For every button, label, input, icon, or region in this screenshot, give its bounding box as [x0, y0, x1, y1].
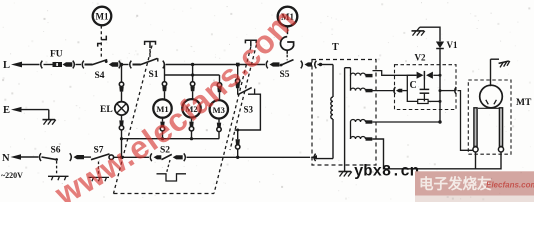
node: S3 tap — [236, 63, 240, 67]
wire — [84, 156, 91, 158]
svg-text:T: T — [332, 42, 339, 53]
wire: dashed link S2 cam — [167, 160, 170, 172]
switch S3 branch from rail — [236, 65, 240, 95]
connector ) — [184, 153, 186, 161]
svg-text:EL: EL — [100, 105, 113, 115]
lamp branch: plug connector top — [119, 66, 123, 102]
motor M1 (turntable, top) — [278, 7, 298, 27]
wire: bottom bus of motors — [120, 137, 219, 140]
wire: dashed diagonal linkage D4 — [230, 45, 257, 151]
magnetron body — [478, 85, 502, 108]
wire: dashed link to S5 — [286, 50, 288, 60]
node E (earth terminal) — [3, 105, 49, 119]
resistor in doubler — [418, 99, 440, 103]
transformer core line with ground — [345, 68, 351, 172]
wire: HV line b down and along bottom to magnetron — [372, 139, 501, 169]
connector ( before S2 — [150, 153, 152, 161]
connector ) after S6 — [70, 153, 72, 161]
voltage doubler dashed box — [395, 65, 457, 110]
svg-text:V1: V1 — [447, 40, 458, 50]
wire: dashed link S7 cam — [98, 162, 100, 176]
connector ( — [82, 61, 84, 69]
wire: dashed diagonal linkage D3 — [214, 47, 251, 194]
transformer primary winding — [317, 65, 334, 159]
wire: plug dash after S2 — [173, 155, 183, 159]
svg-text:Elecfans.com: Elecfans.com — [486, 181, 534, 190]
wire: HV line a to diode column — [372, 121, 440, 123]
wire into transformer + node — [318, 63, 334, 66]
magnetron filament leads — [473, 108, 504, 152]
connector ( — [41, 61, 43, 69]
svg-text:S3: S3 — [244, 105, 254, 115]
wire: plug dash — [154, 155, 162, 159]
node junctions on column — [438, 74, 441, 124]
wire: dashed link cam to S1 — [149, 49, 151, 59]
wire: L rail middle segment — [166, 64, 266, 66]
ground (magnetron anode) — [491, 59, 510, 86]
node: junction of L rail and lamp branch — [120, 63, 123, 66]
connector ring after S7 — [109, 155, 114, 160]
wire: plug dash — [270, 62, 280, 66]
wire: doubler loop left side — [407, 75, 417, 101]
switch S7 blade — [91, 146, 110, 160]
wire: top ground to V1 — [420, 27, 440, 41]
svg-text:MT: MT — [516, 98, 532, 108]
wire: filament line a to doubler — [373, 71, 417, 76]
wire: plug dash — [74, 155, 85, 159]
wire: plug dash — [305, 62, 313, 66]
banner elecfans — [415, 171, 534, 202]
wire — [85, 64, 93, 66]
connector ) — [301, 61, 303, 69]
connector arrow into transformer — [310, 154, 317, 161]
coupling symbol (clutch) — [280, 37, 293, 51]
wire: V1 column through doubler — [439, 49, 441, 123]
svg-text:S4: S4 — [95, 71, 105, 81]
wire: plug dash — [109, 62, 119, 66]
svg-text:E: E — [3, 105, 10, 116]
transformer T dashed box — [312, 42, 376, 165]
connector ( — [315, 61, 317, 69]
motor M1 — [153, 99, 171, 117]
svg-text:V2: V2 — [415, 53, 426, 63]
wire: dashed diagonal linkage D2 — [114, 46, 153, 194]
svg-text:N: N — [2, 153, 10, 164]
connector ( before S5 — [266, 61, 268, 69]
wire: doubler output to magnetron — [440, 87, 473, 150]
svg-text:S6: S6 — [51, 146, 61, 156]
switch S4 blade — [92, 60, 108, 81]
motor M3 bottom plug — [217, 119, 221, 139]
transformer HV winding — [351, 120, 373, 141]
cam below S7 — [89, 177, 110, 181]
motor M2 bottom plug — [189, 118, 193, 139]
motor M2 — [182, 99, 200, 117]
motor M3 — [210, 100, 228, 118]
cam below S2 — [157, 174, 187, 181]
node: M2 tap — [191, 63, 194, 66]
wire: dashed bottom linkage bar — [114, 193, 215, 195]
motor M3 branch plug — [217, 75, 221, 100]
wire — [44, 64, 53, 66]
svg-text:C: C — [410, 80, 417, 91]
motor M1 bottom plug — [160, 118, 164, 139]
svg-text:M1: M1 — [96, 12, 109, 22]
switch S2 blade — [160, 146, 172, 160]
connector ( before S6 — [39, 153, 41, 161]
node N (neutral terminal) — [2, 153, 39, 164]
wire: left filament lead to bottom wire — [475, 152, 477, 169]
wire — [76, 64, 82, 66]
svg-text:FU: FU — [50, 50, 63, 60]
ground (earth for E) — [43, 120, 56, 125]
wire: bus down to N rail — [121, 139, 123, 158]
wire: stem below turntable motor — [287, 26, 289, 34]
wire: sub-bus feeding motors — [165, 65, 220, 82]
svg-text:www.elecfans.com: www.elecfans.com — [48, 1, 303, 202]
switch S1 blade — [140, 58, 159, 80]
lamp EL — [100, 102, 128, 115]
svg-text:S5: S5 — [280, 70, 290, 80]
wire: L rail to fuse — [20, 64, 40, 66]
connector ) — [119, 61, 121, 69]
svg-text:电子发烧友: 电子发烧友 — [419, 175, 492, 193]
cam above S1 — [145, 42, 156, 49]
wire — [133, 64, 141, 66]
motor M1 (oven lamp/timer motor, top left) — [93, 7, 112, 26]
diode V1 — [436, 40, 458, 50]
node L (line terminal) — [3, 60, 22, 71]
svg-text:~220V: ~220V — [1, 171, 23, 180]
switch S3 blade and frame — [235, 88, 261, 130]
watermark www.elecfans.com — [63, 17, 301, 206]
wire: dashed link S6 cam — [56, 161, 58, 175]
motor M2 branch plug — [190, 82, 194, 100]
lamp branch: plug connector bottom — [119, 115, 123, 139]
wire: plug dash — [63, 62, 73, 66]
wire: dashed stem below M1 — [100, 26, 102, 58]
connector ) — [163, 61, 165, 69]
ground (core) — [339, 172, 352, 177]
svg-text:ybx8.cn: ybx8.cn — [354, 163, 419, 181]
cam above S3 (door linkage) — [245, 40, 256, 46]
diode V2 (back to back) — [417, 71, 440, 80]
switch S6 blade — [42, 146, 61, 161]
magnetron MT dashed box — [468, 80, 532, 154]
connector ) — [73, 61, 75, 69]
wire — [122, 64, 129, 66]
fuse FU — [50, 50, 63, 68]
wire: N rail to transformer — [187, 156, 311, 159]
linkage crank for S4 — [98, 36, 107, 47]
ground (top, for V1) — [412, 27, 425, 35]
wire: N rail segment — [114, 156, 149, 159]
svg-text:L: L — [3, 60, 10, 71]
motor M1 branch plug — [162, 75, 166, 100]
capacitor C — [410, 80, 430, 102]
connector ( — [130, 61, 132, 69]
wire: S3 down to N rail with plug — [236, 129, 240, 158]
transformer filament winding — [351, 68, 373, 93]
switch S5 blade — [280, 60, 294, 80]
wire: filament line b with connector — [373, 87, 408, 94]
cam below S6 — [48, 176, 69, 180]
svg-text:S1: S1 — [149, 70, 159, 80]
